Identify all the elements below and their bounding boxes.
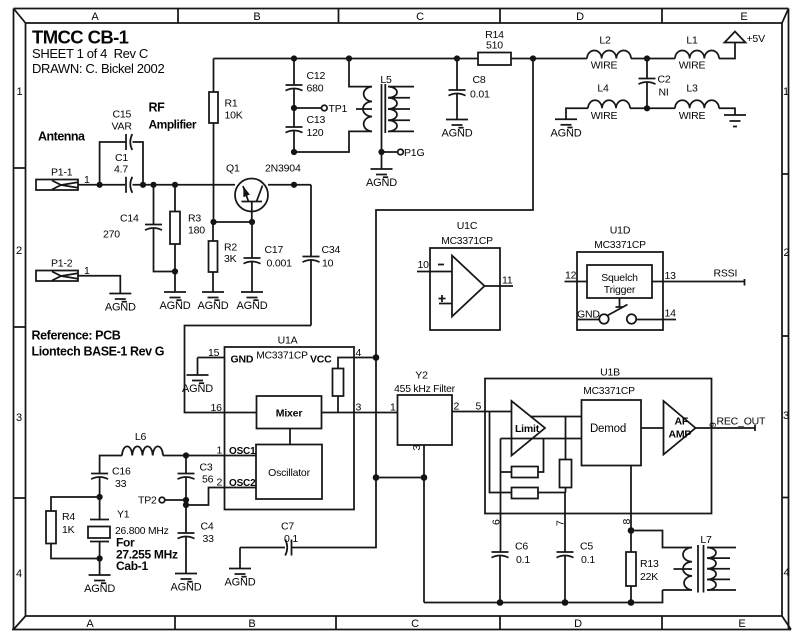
svg-text:4: 4 xyxy=(356,347,362,359)
resistor internal upper xyxy=(501,439,544,478)
connector P1-2 xyxy=(36,258,90,282)
svg-text:RF: RF xyxy=(149,101,166,115)
inductor L4 xyxy=(588,83,630,122)
capacitor C2 (NI) xyxy=(639,59,671,109)
resistor internal vertical xyxy=(560,417,572,493)
capacitor C12 xyxy=(286,59,326,109)
svg-text:10K: 10K xyxy=(225,110,243,122)
resistor R3 xyxy=(170,185,205,292)
svg-text:1K: 1K xyxy=(62,524,75,536)
svg-text:0.1: 0.1 xyxy=(284,533,298,545)
capacitor C34 xyxy=(303,185,341,326)
svg-text:C34: C34 xyxy=(322,244,341,256)
wire REC_OUT xyxy=(696,416,767,432)
svg-text:OSC1: OSC1 xyxy=(229,446,256,457)
IC U1B xyxy=(485,367,712,514)
IC U1D squelch trigger xyxy=(565,225,745,331)
svg-text:510: 510 xyxy=(486,40,503,52)
svg-text:C16: C16 xyxy=(112,466,131,478)
limit amp triangle xyxy=(512,401,546,456)
pin 7 vertical xyxy=(564,493,566,552)
ground AGND Y1 xyxy=(84,575,115,595)
connector P1-1 xyxy=(36,166,90,190)
capacitor C7 xyxy=(240,478,376,569)
wire Y2 pin3 and bottom rail xyxy=(373,445,663,603)
svg-text:TP1: TP1 xyxy=(329,103,348,115)
svg-text:Limit: Limit xyxy=(515,423,540,435)
svg-text:Q1: Q1 xyxy=(226,163,240,175)
svg-text:56: 56 xyxy=(202,474,214,486)
svg-text:C: C xyxy=(416,11,424,23)
svg-text:Cab-1: Cab-1 xyxy=(116,559,148,573)
svg-text:Amplifier: Amplifier xyxy=(149,118,197,132)
ground AGND L5 xyxy=(366,152,397,189)
ground AGND C7 xyxy=(225,569,256,589)
svg-text:13: 13 xyxy=(665,270,677,282)
capacitor C3 xyxy=(178,456,214,506)
svg-text:C: C xyxy=(411,618,419,630)
pin 15 GND xyxy=(198,347,225,375)
svg-text:R3: R3 xyxy=(188,213,201,225)
svg-text:10: 10 xyxy=(418,259,430,271)
svg-text:0.1: 0.1 xyxy=(516,554,530,566)
wire P1-1 to input node xyxy=(78,182,125,188)
svg-text:L3: L3 xyxy=(686,83,698,95)
pin 1 OSC1 wire xyxy=(163,445,256,459)
svg-text:R4: R4 xyxy=(62,511,75,523)
svg-text:C17: C17 xyxy=(265,244,284,256)
svg-text:Antenna: Antenna xyxy=(38,130,86,144)
wire collector node xyxy=(268,182,311,188)
resistor internal U1A xyxy=(333,358,355,413)
svg-text:680: 680 xyxy=(307,83,324,95)
svg-text:R2: R2 xyxy=(224,242,237,254)
svg-text:Y2: Y2 xyxy=(415,370,428,382)
wire VCC feed xyxy=(373,59,533,478)
svg-text:2: 2 xyxy=(217,477,223,489)
svg-text:1: 1 xyxy=(783,86,789,98)
svg-text:U1B: U1B xyxy=(600,367,620,379)
resistor R14 xyxy=(478,29,511,65)
svg-text:Mixer: Mixer xyxy=(276,408,303,420)
svg-text:SHEET 1 of 4 Rev C: SHEET 1 of 4 Rev C xyxy=(32,46,148,61)
svg-text:GND: GND xyxy=(231,354,254,366)
wire limit outputs to demod xyxy=(501,417,582,439)
svg-text:AMP: AMP xyxy=(669,429,692,441)
svg-text:180: 180 xyxy=(188,225,205,237)
svg-text:3: 3 xyxy=(411,445,423,451)
filter Y2 xyxy=(394,370,485,451)
transformer L7 xyxy=(663,534,737,593)
pin 8 vertical xyxy=(628,466,635,553)
svg-text:C14: C14 xyxy=(120,213,139,225)
svg-text:2: 2 xyxy=(16,245,22,257)
wire demod to AF amp xyxy=(641,427,664,429)
mixer block xyxy=(257,396,322,429)
svg-text:TMCC CB-1: TMCC CB-1 xyxy=(32,27,129,48)
svg-text:2N3904: 2N3904 xyxy=(265,163,301,175)
svg-text:14: 14 xyxy=(665,308,677,320)
svg-text:Oscillator: Oscillator xyxy=(268,467,310,479)
svg-text:1: 1 xyxy=(390,402,396,414)
svg-text:Trigger: Trigger xyxy=(604,284,636,296)
resistor internal lower xyxy=(512,488,566,499)
svg-text:U1C: U1C xyxy=(457,220,478,232)
svg-text:C13: C13 xyxy=(307,114,326,126)
svg-text:2: 2 xyxy=(454,401,460,413)
svg-text:U1D: U1D xyxy=(610,225,631,237)
note reference text xyxy=(32,329,165,359)
svg-text:NI: NI xyxy=(659,87,669,99)
IC U1A mixer/oscillator xyxy=(225,335,355,510)
transistor Q1 2N3904 xyxy=(226,163,301,223)
capacitor C16 xyxy=(91,456,131,501)
svg-text:455 kHz Filter: 455 kHz Filter xyxy=(394,384,455,395)
inductor L6 xyxy=(122,431,163,456)
svg-text:AF: AF xyxy=(675,416,689,428)
AF amp triangle xyxy=(664,401,696,455)
capacitor C8 xyxy=(449,59,490,120)
svg-text:B: B xyxy=(253,11,260,23)
svg-text:WIRE: WIRE xyxy=(679,60,706,72)
svg-text:6: 6 xyxy=(491,519,503,525)
svg-text:15: 15 xyxy=(208,347,220,359)
resistor R2 xyxy=(209,222,238,292)
wire L4 to L3 xyxy=(630,105,675,111)
svg-text:A: A xyxy=(91,11,99,23)
svg-text:REC_OUT: REC_OUT xyxy=(717,416,767,428)
svg-text:0.1: 0.1 xyxy=(581,554,595,566)
svg-text:VCC: VCC xyxy=(310,354,332,366)
inductor L3 xyxy=(675,83,719,122)
svg-text:U1A: U1A xyxy=(278,335,298,347)
svg-text:A: A xyxy=(86,618,94,630)
inductor L2 xyxy=(587,35,631,72)
resistor R4 xyxy=(46,497,100,559)
svg-text:C7: C7 xyxy=(281,521,294,533)
test point TP2 xyxy=(138,495,186,507)
svg-text:3K: 3K xyxy=(224,253,237,265)
ground AGND C17 xyxy=(237,292,268,312)
capacitor C6 xyxy=(492,541,531,606)
wire mixer to oscillator xyxy=(289,429,291,445)
svg-text:P1-1: P1-1 xyxy=(51,166,73,178)
pin 6 vertical xyxy=(500,439,502,552)
svg-text:WIRE: WIRE xyxy=(591,110,618,122)
svg-text:R1: R1 xyxy=(225,98,238,110)
svg-text:B: B xyxy=(248,618,255,630)
wire base node xyxy=(210,219,255,225)
svg-text:4: 4 xyxy=(16,568,22,580)
svg-text:1: 1 xyxy=(217,445,223,457)
pin 4 VCC xyxy=(354,347,376,359)
ground AGND pin15 xyxy=(182,375,213,395)
demod block xyxy=(582,400,642,466)
svg-text:MC3371CP: MC3371CP xyxy=(594,240,646,251)
svg-text:DRAWN: C. Bickel 2002: DRAWN: C. Bickel 2002 xyxy=(32,61,164,76)
wire top supply rail xyxy=(214,55,588,61)
svg-text:E: E xyxy=(738,618,745,630)
svg-text:MC3371CP: MC3371CP xyxy=(256,351,308,362)
inductor L1 xyxy=(675,35,719,72)
svg-text:2: 2 xyxy=(784,247,790,259)
pin 5 wire xyxy=(485,412,512,493)
svg-text:0.01: 0.01 xyxy=(470,89,490,101)
wire input node xyxy=(133,182,236,188)
ground AGND L4 xyxy=(551,108,588,139)
ground earth L3 xyxy=(719,108,746,126)
svg-text:3: 3 xyxy=(356,402,362,414)
title text xyxy=(32,27,164,76)
svg-text:L6: L6 xyxy=(135,431,147,443)
test point TP1 xyxy=(291,103,348,115)
svg-text:Y1: Y1 xyxy=(117,509,130,521)
svg-text:C3: C3 xyxy=(200,462,213,474)
oscillator block xyxy=(256,445,322,500)
resistor R13 xyxy=(626,552,659,606)
pin 16 xyxy=(211,402,257,414)
svg-text:C15: C15 xyxy=(113,109,132,121)
svg-text:16: 16 xyxy=(211,402,223,414)
capacitor C14 xyxy=(103,185,175,272)
svg-text:8: 8 xyxy=(621,519,633,525)
svg-text:MC3371CP: MC3371CP xyxy=(441,236,493,247)
wire C34 to pin16 xyxy=(185,326,312,413)
svg-text:C2: C2 xyxy=(658,74,671,86)
wire L2 to L1 xyxy=(631,55,675,61)
crystal Y1 xyxy=(88,497,178,575)
svg-text:270: 270 xyxy=(103,229,120,241)
svg-text:D: D xyxy=(576,11,584,23)
svg-text:P1G: P1G xyxy=(404,147,424,159)
svg-text:4: 4 xyxy=(784,567,790,579)
svg-text:E: E xyxy=(740,11,747,23)
svg-text:Reference: PCB: Reference: PCB xyxy=(32,329,121,343)
svg-text:TP2: TP2 xyxy=(138,495,157,507)
capacitor C17 xyxy=(244,222,293,292)
pin 2 OSC2 wire xyxy=(183,477,256,509)
svg-text:1: 1 xyxy=(17,86,23,98)
svg-text:L7: L7 xyxy=(700,534,712,546)
wire P1-2 to ground xyxy=(78,276,120,294)
pin 3 wire to Y2 xyxy=(322,402,398,414)
svg-text:33: 33 xyxy=(203,533,215,545)
svg-text:Demod: Demod xyxy=(590,423,626,435)
ground AGND P1-2 xyxy=(105,294,136,314)
svg-text:VAR: VAR xyxy=(112,121,133,133)
svg-text:R13: R13 xyxy=(640,558,659,570)
svg-text:L4: L4 xyxy=(597,83,609,95)
svg-text:C4: C4 xyxy=(201,521,214,533)
capacitor C13 xyxy=(286,108,326,155)
ground AGND C8 xyxy=(442,120,473,140)
svg-text:OSC2: OSC2 xyxy=(229,478,256,489)
ground AGND R2 xyxy=(198,292,229,312)
svg-text:P1-2: P1-2 xyxy=(51,258,73,270)
capacitor C15 (VAR) xyxy=(112,109,133,151)
pin labels 6 7 8 xyxy=(491,519,633,527)
svg-text:120: 120 xyxy=(307,127,324,139)
svg-text:D: D xyxy=(574,618,582,630)
svg-text:L2: L2 xyxy=(599,35,611,47)
svg-text:MC3371CP: MC3371CP xyxy=(583,386,635,397)
svg-text:10: 10 xyxy=(322,258,334,270)
svg-text:L1: L1 xyxy=(686,35,698,47)
svg-text:7: 7 xyxy=(555,520,567,526)
svg-text:Liontech BASE-1 Rev G: Liontech BASE-1 Rev G xyxy=(32,345,165,359)
svg-text:WIRE: WIRE xyxy=(679,110,706,122)
svg-text:3: 3 xyxy=(16,412,22,424)
capacitor C5 xyxy=(557,541,596,606)
svg-text:22K: 22K xyxy=(640,571,658,583)
svg-text:3: 3 xyxy=(783,410,789,422)
+5V supply xyxy=(719,32,765,59)
svg-text:C6: C6 xyxy=(515,541,528,553)
svg-text:5: 5 xyxy=(476,401,482,413)
capacitor C1 xyxy=(114,152,132,193)
svg-text:33: 33 xyxy=(115,478,127,490)
svg-text:4.7: 4.7 xyxy=(114,164,128,176)
wire pin8 to L7 xyxy=(631,531,692,548)
svg-text:0.001: 0.001 xyxy=(267,258,293,270)
ground AGND C4 xyxy=(171,574,202,594)
op-amp U1C xyxy=(417,220,513,330)
ground AGND C14/R3 xyxy=(160,292,191,312)
svg-text:12: 12 xyxy=(565,270,577,282)
label RF Amplifier xyxy=(149,101,197,132)
svg-text:11: 11 xyxy=(502,275,513,287)
capacitor C4 xyxy=(178,505,215,574)
wire C15 branch xyxy=(100,142,146,188)
svg-text:RSSI: RSSI xyxy=(714,268,738,280)
svg-text:C1: C1 xyxy=(115,152,128,164)
svg-text:+5V: +5V xyxy=(747,33,766,45)
svg-text:C5: C5 xyxy=(580,541,593,553)
svg-text:WIRE: WIRE xyxy=(591,60,618,72)
svg-text:C8: C8 xyxy=(473,74,486,86)
resistor R1 xyxy=(209,59,243,223)
test point P1G xyxy=(378,147,424,159)
svg-text:Squelch: Squelch xyxy=(601,272,638,284)
transformer L5 xyxy=(294,59,414,153)
svg-text:C12: C12 xyxy=(307,70,326,82)
